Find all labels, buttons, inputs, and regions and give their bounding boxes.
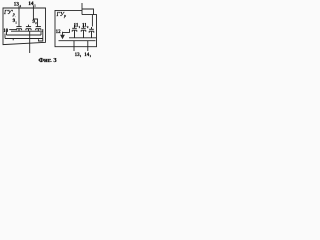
svg-text:ГУр: ГУр <box>56 12 67 18</box>
svg-text:Фиг. 3: Фиг. 3 <box>38 57 57 64</box>
svg-text:12: 12 <box>56 30 62 35</box>
svg-text:14: 14 <box>28 1 34 7</box>
svg-text:10: 10 <box>3 29 8 34</box>
svg-text:13: 13 <box>14 1 20 7</box>
